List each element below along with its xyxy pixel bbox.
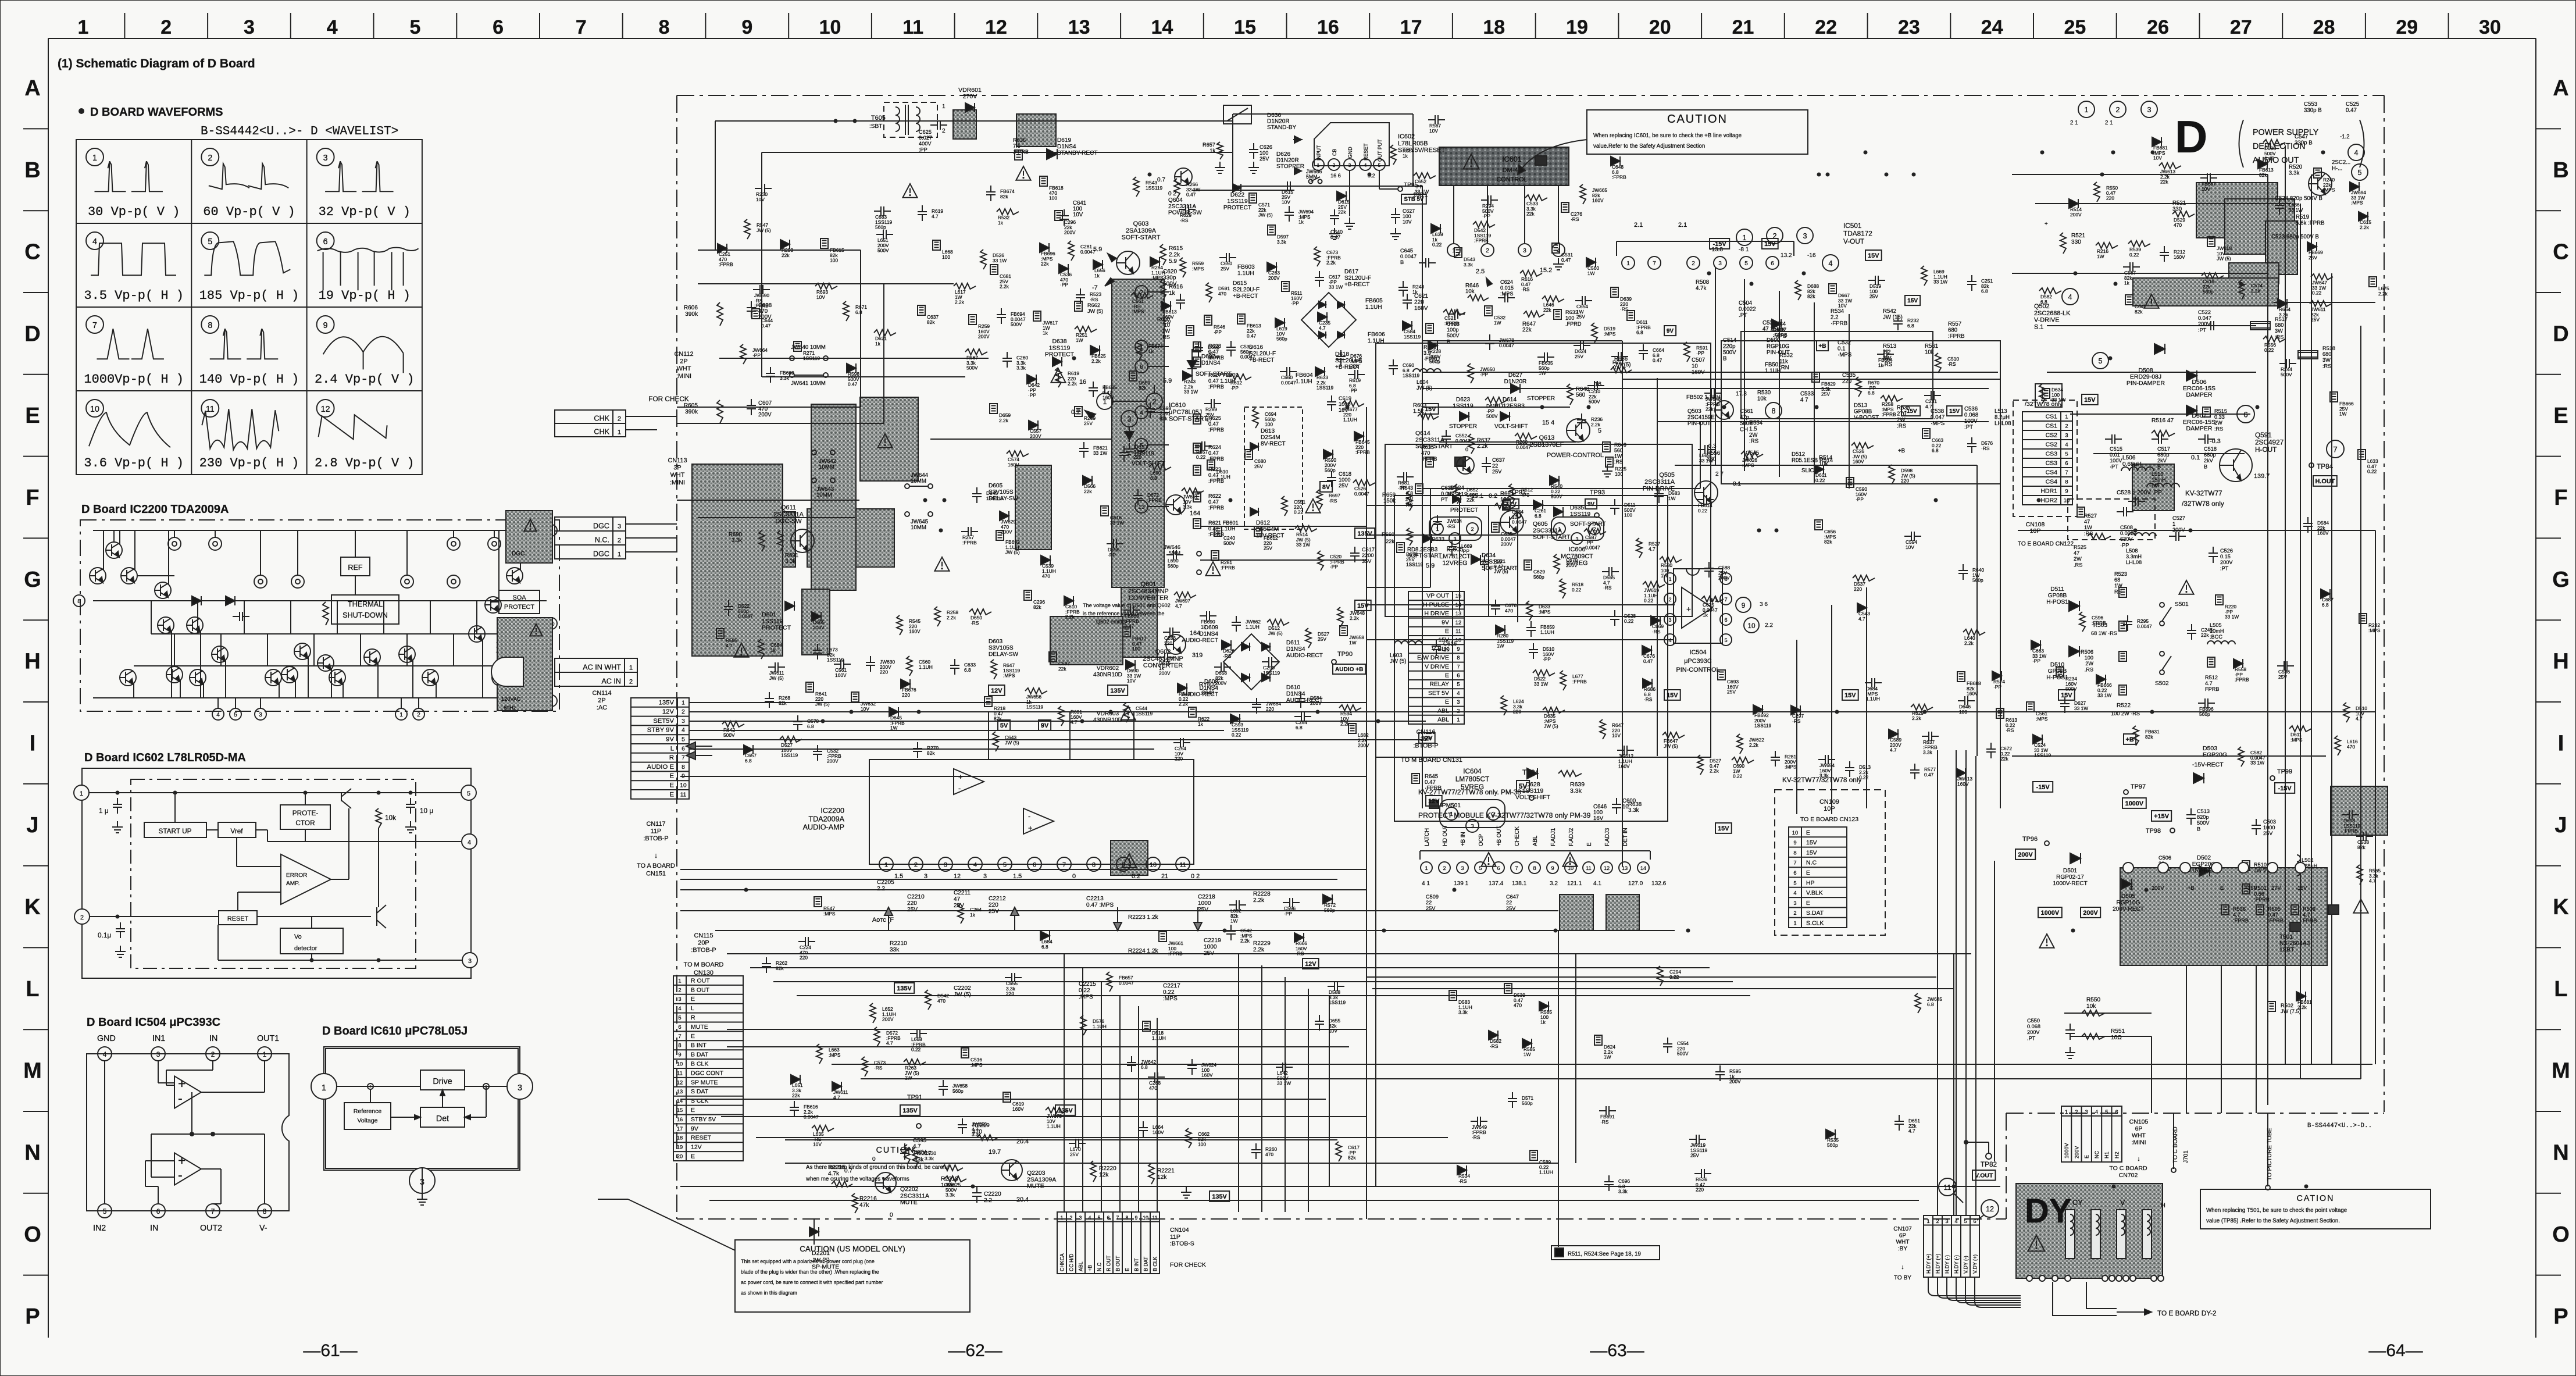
resistor/capacitor (filler): [1515, 433, 1537, 439]
wire: [1422, 388, 1989, 389]
svg-text:500V: 500V: [1677, 1051, 1689, 1057]
wire: [1233, 113, 1413, 115]
svg-text:STAND-BY: STAND-BY: [1267, 124, 1297, 131]
transformer T601 left patch: [811, 404, 856, 590]
C528: [2128, 501, 2135, 502]
resistor/capacitor (filler): [1179, 209, 1186, 210]
wire: [297, 530, 298, 575]
wire: [2285, 145, 2286, 1064]
svg-text:2: 2: [2065, 423, 2068, 429]
voltage callout 9V: [1039, 720, 1051, 730]
waveform ref 5: [2352, 164, 2368, 180]
wire: [690, 721, 1426, 722]
svg-text:10V: 10V: [1612, 733, 1621, 739]
warning symbol: [902, 184, 917, 198]
svg-text:DGC: DGC: [593, 550, 609, 558]
waveform ref 7 and TP84: [2327, 440, 2344, 458]
svg-text:6.8: 6.8: [2040, 299, 2047, 305]
svg-text:C626: C626: [1260, 144, 1272, 150]
capacitor C625: [930, 124, 937, 126]
svg-text:D613: D613: [1261, 428, 1275, 434]
svg-text:220: 220: [907, 900, 917, 907]
svg-text:33 1W: 33 1W: [1415, 189, 1429, 195]
svg-text:164: 164: [1190, 630, 1200, 637]
resistor/capacitor (filler): [1437, 515, 1438, 522]
svg-text:0.2: 0.2: [1489, 493, 1497, 500]
wire: [331, 669, 332, 698]
svg-text:0.47: 0.47: [1653, 358, 1662, 363]
svg-text:1k: 1k: [1703, 612, 1708, 618]
svg-text:160V: 160V: [2317, 530, 2329, 536]
svg-text:560p: 560p: [1522, 1100, 1533, 1106]
svg-text:5: 5: [2357, 169, 2361, 177]
svg-text:22k: 22k: [1041, 261, 1049, 267]
wire: [2311, 174, 2312, 1064]
svg-text:M: M: [2552, 1059, 2570, 1083]
transistor Q20 (IC2200 internal): [506, 568, 523, 584]
delay-sw transistor 1: [1166, 495, 1186, 515]
wire: [1779, 291, 1780, 477]
svg-text:PIN-DAMPER: PIN-DAMPER: [2127, 380, 2165, 387]
svg-text:C: C: [24, 240, 40, 265]
svg-text:2.2k: 2.2k: [1964, 640, 1974, 646]
svg-text:2.2k: 2.2k: [1912, 715, 1922, 721]
svg-text:M: M: [23, 1059, 42, 1083]
svg-text:200V: 200V: [2152, 885, 2164, 891]
svg-text:200V: 200V: [1159, 671, 1171, 676]
svg-text::FPRB: :FPRB: [2343, 828, 2358, 834]
JW646 5MM: [1197, 551, 1201, 556]
waveform cell 6: [317, 232, 334, 249]
svg-text:·PP: ·PP: [1480, 372, 1488, 377]
resistor/capacitor (filler): [1262, 661, 1269, 662]
svg-text:R505: R505: [2268, 906, 2281, 912]
V-BOOST box outline: [1741, 331, 1933, 419]
resistor/capacitor (filler): [1230, 925, 1232, 931]
svg-text:2: 2: [160, 16, 172, 38]
svg-text:INPUT: INPUT: [1316, 145, 1322, 161]
svg-text:4.7: 4.7: [2205, 680, 2213, 686]
pin 1: [311, 1074, 337, 1099]
voltage callout 15V: [1355, 600, 1371, 611]
wire: [1069, 712, 1071, 760]
C619 1000 16V: [1331, 395, 1332, 402]
svg-text:0.22: 0.22: [911, 1047, 921, 1053]
resistor/capacitor (filler): [965, 349, 987, 355]
svg-text:4.7: 4.7: [1890, 747, 1897, 753]
waveform cell 12: [317, 400, 334, 417]
svg-text:14: 14: [1151, 16, 1173, 38]
svg-text:1W: 1W: [1497, 643, 1504, 649]
wire: [690, 730, 1224, 731]
resistor/capacitor (filler): [1137, 489, 1139, 495]
Reference Voltage box: [344, 1103, 391, 1129]
svg-text:FOR CHECK: FOR CHECK: [1170, 1261, 1206, 1268]
svg-text:D603: D603: [989, 639, 1003, 645]
svg-text:VOLT-SHIFT: VOLT-SHIFT: [1494, 423, 1528, 430]
svg-text:1W: 1W: [1524, 1051, 1531, 1057]
svg-text:B OUT: B OUT: [1115, 1255, 1121, 1271]
C608 470 200V: [751, 301, 752, 308]
svg-text:7: 7: [2065, 469, 2068, 476]
resistor/capacitor (filler): [1219, 257, 1226, 258]
rectifier Q602 AC-RECT patch: [860, 397, 918, 481]
ground: [2070, 1047, 2071, 1053]
svg-text:2: 2: [1457, 707, 1460, 714]
pin 6: [545, 695, 557, 707]
svg-text:6: 6: [682, 746, 685, 752]
callout 135V bottom: [900, 1105, 920, 1115]
resistor/capacitor (filler): [1183, 371, 1192, 380]
resistor/capacitor (filler): [1957, 672, 1965, 682]
callout 9V b: [1664, 326, 1676, 336]
svg-text:16V: 16V: [1593, 815, 1604, 822]
resistor/capacitor (filler): [1561, 202, 1569, 212]
svg-text:7: 7: [576, 16, 587, 38]
TP98 +15V: [2152, 811, 2171, 821]
svg-text:V.OUT: V.OUT: [1975, 1172, 1993, 1179]
svg-text:as shown in this diagram: as shown in this diagram: [741, 1290, 797, 1296]
ground near CN104: [1186, 1186, 1187, 1192]
R690 3.3k: [759, 530, 765, 551]
transformer T603 patch: [807, 509, 894, 567]
resistor/capacitor (filler): [1651, 616, 1660, 625]
resistor/capacitor (filler): [1911, 704, 1933, 710]
resistor/capacitor (filler): [1342, 401, 1364, 407]
svg-text:C637: C637: [1492, 457, 1505, 463]
svg-text:8: 8: [678, 1042, 681, 1049]
svg-text:CY: CY: [2072, 1199, 2083, 1207]
svg-text:4.7: 4.7: [932, 213, 939, 219]
transistor Q2202 MUTE: [875, 1172, 896, 1193]
svg-text:H-...: H-...: [2332, 166, 2342, 172]
svg-text:C535: C535: [1842, 372, 1856, 379]
resistor/capacitor (filler): [2164, 246, 2165, 252]
svg-text:2.2k: 2.2k: [1000, 284, 1009, 290]
wire top bus: [93, 530, 547, 531]
resistor/capacitor (filler): [1289, 206, 1290, 212]
svg-text:ac power cord, be sure to conn: ac power cord, be sure to connect it wit…: [741, 1279, 883, 1285]
svg-text:2: 2: [629, 679, 633, 686]
S502 switch: [2160, 651, 2164, 656]
TP82 V.OUT: [1966, 1142, 1989, 1143]
connector CN116 15P: [1408, 591, 1453, 724]
svg-text:9: 9: [1135, 1215, 1138, 1221]
svg-text:JW (5): JW (5): [1258, 212, 1273, 218]
wire: [727, 1029, 1367, 1030]
svg-text:3.3k: 3.3k: [925, 1156, 934, 1161]
svg-text:220: 220: [1513, 709, 1521, 715]
wire: [721, 1116, 1367, 1117]
R615 2.2k: [1160, 244, 1166, 265]
wire: [680, 1099, 1326, 1100]
svg-text:C506: C506: [2158, 855, 2171, 861]
svg-text:+B IN: +B IN: [1460, 832, 1467, 846]
IC504 body: [87, 1054, 289, 1211]
wire: [1200, 559, 1367, 561]
svg-text:1SS119: 1SS119: [1146, 185, 1163, 191]
svg-text:8V-RECT: 8V-RECT: [1261, 441, 1286, 447]
wire: [1715, 268, 1716, 465]
voltage callout 135V: [1355, 528, 1375, 539]
D635 SOFT-START: [1554, 507, 1563, 516]
svg-text:2.2k: 2.2k: [1240, 938, 1250, 944]
resistor/capacitor (filler): [2258, 159, 2267, 169]
svg-text:D611: D611: [1286, 640, 1300, 646]
wire: [2360, 326, 2361, 1079]
svg-text:5.9: 5.9: [1163, 377, 1172, 384]
svg-text:RS: RS: [2114, 589, 2122, 594]
pin 2: [206, 1047, 220, 1061]
svg-text:3: 3: [924, 873, 927, 880]
wire: [2012, 755, 2326, 757]
resistor/capacitor (filler): [990, 265, 998, 275]
svg-text:0.0047: 0.0047: [1240, 354, 1255, 360]
svg-text:4.7: 4.7: [1319, 325, 1326, 331]
svg-text:EGP20G: EGP20G: [2203, 751, 2227, 758]
svg-text:SOFT-START: SOFT-START: [1533, 534, 1571, 541]
resistor/capacitor (filler): [1348, 374, 1355, 375]
resistor/capacitor (filler): [2239, 280, 2245, 300]
svg-text:3: 3: [1793, 900, 1796, 906]
wire: [1082, 968, 1083, 1212]
svg-text:S3V105S: S3V105S: [989, 645, 1014, 651]
waveform ref 8: [1765, 402, 1782, 419]
pin 11: [1176, 857, 1190, 871]
D622 PROTECT: [1233, 184, 1241, 192]
D628 VOLT-SHIFT: [1527, 768, 1537, 779]
svg-text:R2220: R2220: [1099, 1165, 1116, 1172]
svg-text:1W: 1W: [1349, 640, 1357, 646]
svg-text:2.4 Vp-p( V ): 2.4 Vp-p( V ): [315, 372, 415, 387]
svg-text:3 6: 3 6: [1760, 601, 1768, 608]
svg-text:390k: 390k: [685, 311, 698, 318]
wire: [225, 660, 226, 698]
svg-text:15V: 15V: [2061, 692, 2072, 699]
R2216 47k: [852, 1193, 858, 1213]
resistor/capacitor (filler): [1627, 311, 1635, 320]
svg-text:T605: T605: [871, 115, 886, 122]
svg-text:PIN-OUT: PIN-OUT: [1767, 350, 1790, 356]
wire: [267, 634, 268, 666]
svg-text:STBY 9V: STBY 9V: [647, 727, 675, 734]
svg-text:D: D: [2175, 111, 2207, 162]
svg-text:0.0047: 0.0047: [1281, 380, 1296, 386]
svg-text:1: 1: [682, 700, 685, 706]
svg-text:3W: 3W: [2322, 357, 2331, 363]
svg-text:82k: 82k: [927, 319, 935, 325]
svg-text::MINI: :MINI: [676, 373, 691, 380]
resistor/capacitor (filler): [2350, 182, 2359, 191]
C513 820p: [2190, 808, 2192, 815]
svg-text:25V: 25V: [1198, 907, 1208, 913]
svg-text:S.DAT: S.DAT: [1806, 910, 1824, 917]
D634 SOFT-START: [1471, 555, 1480, 564]
voltage callout 15V: [1664, 690, 1681, 700]
svg-text:DY: DY: [2025, 1192, 2072, 1230]
resistor/capacitor (filler): [1315, 367, 1325, 376]
voltage callout 15V: [2082, 394, 2098, 405]
svg-text:1.1UH: 1.1UH: [1237, 270, 1254, 277]
TP90 AUDIO +B: [1332, 660, 1336, 664]
resistor/capacitor (filler): [780, 240, 790, 249]
svg-text:Q602 emitter: Q602 emitter: [1096, 619, 1127, 625]
wire: [1575, 954, 1576, 1163]
svg-text:5: 5: [2105, 1109, 2108, 1115]
resistor/capacitor (filler): [1865, 682, 1872, 683]
resistor/capacitor (filler): [1501, 696, 1507, 715]
svg-text:132.6: 132.6: [1651, 881, 1667, 887]
svg-text:PROTECT: PROTECT: [1223, 205, 1251, 211]
resistor/capacitor (filler): [862, 1057, 868, 1076]
svg-text:H.DY (-): H.DY (-): [1954, 1255, 1960, 1274]
svg-text:2.8 Vp-p( V ): 2.8 Vp-p( V ): [315, 456, 415, 470]
svg-text:L604: L604: [1417, 379, 1428, 385]
resistor/capacitor (filler): [2307, 517, 2309, 523]
resistor/capacitor (filler): [1522, 1039, 1532, 1048]
resistor/capacitor (filler): [744, 745, 753, 754]
wire: [761, 152, 762, 377]
R637 2.2k: [1468, 434, 1474, 454]
resistor/capacitor (filler): [876, 234, 883, 235]
resistor/capacitor (filler): [1512, 1092, 1513, 1099]
svg-text::RS: :RS: [1749, 439, 1759, 445]
pin 3: [255, 708, 266, 720]
svg-text::BTOB-P: :BTOB-P: [643, 835, 668, 842]
wire: [406, 530, 408, 575]
Q604 POWER-SW: [1175, 168, 1192, 186]
wire: [360, 634, 361, 666]
svg-text:SOFT-START: SOFT-START: [1122, 234, 1161, 241]
resistor/capacitor (filler): [1214, 526, 1222, 536]
svg-text:9: 9: [323, 321, 328, 330]
svg-text:3.2: 3.2: [1550, 881, 1558, 887]
IC501 pin 1: [1622, 256, 1635, 269]
svg-text:2.2k: 2.2k: [1253, 947, 1265, 953]
svg-text:200V: 200V: [1718, 575, 1730, 581]
DY coil 3: [2117, 1210, 2126, 1259]
pin 5: [230, 708, 241, 720]
resistor/capacitor (filler): [1481, 199, 1488, 201]
svg-text:C617: C617: [1362, 547, 1375, 552]
svg-text:4 1: 4 1: [1422, 881, 1430, 887]
svg-text:C2202: C2202: [954, 985, 971, 992]
svg-text:8: 8: [1793, 849, 1796, 855]
svg-text:1W: 1W: [1661, 573, 1668, 579]
wire: [355, 530, 356, 557]
resistor R int2: [497, 640, 503, 660]
waveform ref 12: [1981, 1200, 1999, 1217]
svg-text:D BOARD WAVEFORMS: D BOARD WAVEFORMS: [90, 106, 223, 119]
svg-text:6: 6: [2243, 411, 2247, 419]
resistor/capacitor (filler): [1136, 340, 1142, 360]
svg-text:33 1W: 33 1W: [2289, 207, 2303, 213]
svg-text:·PP: ·PP: [1482, 213, 1490, 219]
svg-text:138.1: 138.1: [1512, 881, 1527, 887]
resistor/capacitor (filler): [1101, 506, 1108, 516]
svg-text:160V: 160V: [1153, 1129, 1164, 1135]
C618 1000 25V: [1331, 471, 1332, 477]
svg-text:6: 6: [1033, 862, 1036, 869]
svg-text:+: +: [178, 1153, 185, 1168]
wire: [715, 930, 1675, 931]
svg-text:R OUT: R OUT: [691, 977, 710, 984]
jumper JW644 10MM: [905, 484, 909, 489]
resistor/capacitor (filler): [943, 1080, 944, 1086]
resistor/capacitor (filler): [897, 615, 902, 635]
voltage callout 135V: [894, 983, 914, 993]
svg-text:·PP: ·PP: [1284, 911, 1292, 917]
waveform ref 4: [2348, 144, 2364, 161]
svg-text:10V: 10V: [1127, 678, 1136, 684]
wire: [1367, 604, 1675, 605]
svg-text:15V: 15V: [1868, 252, 1879, 259]
wire loop box 1: [1376, 343, 1711, 757]
svg-text::RS: :RS: [2084, 530, 2093, 536]
wire: [680, 1186, 2000, 1187]
svg-text:1 μ: 1 μ: [99, 807, 109, 815]
svg-text:E: E: [2553, 404, 2568, 428]
transistor Q14 (IC2200 internal): [329, 669, 345, 686]
svg-text:47: 47: [954, 896, 961, 903]
svg-text:139.7: 139.7: [2254, 473, 2270, 480]
wire w5: [305, 793, 306, 805]
svg-text:0.22: 0.22: [1232, 732, 1241, 738]
svg-text:680p: 680p: [2157, 452, 2169, 458]
svg-text:10k: 10k: [1465, 288, 1475, 295]
resistor/capacitor (filler): [794, 341, 801, 351]
svg-text:0.22: 0.22: [1432, 242, 1442, 248]
resistor/capacitor (filler): [1971, 437, 1972, 444]
resistor 10k: [376, 808, 381, 828]
svg-text::FPRB: :FPRB: [1168, 951, 1183, 957]
svg-text:21: 21: [1161, 873, 1168, 880]
svg-text:1SS119: 1SS119: [1329, 1000, 1346, 1006]
wire: [436, 683, 437, 698]
transistor Q (IC602 top): [326, 792, 355, 793]
resistor/capacitor (filler): [1485, 397, 1507, 403]
svg-text::FPRB: :FPRB: [962, 540, 977, 546]
svg-text:200V: 200V: [827, 758, 839, 764]
wire w7: [331, 879, 349, 880]
svg-text:270V: 270V: [963, 93, 977, 100]
resistor/capacitor (filler): [1574, 345, 1580, 346]
svg-text:·PP: ·PP: [1696, 350, 1704, 356]
svg-text:25V: 25V: [1084, 420, 1093, 426]
svg-text::FPRB: :FPRB: [719, 262, 733, 268]
svg-text:3: 3: [156, 1050, 160, 1058]
svg-text:SOFT-START: SOFT-START: [1415, 443, 1453, 450]
capacitor C520 patch: [2265, 221, 2297, 275]
svg-text:1W: 1W: [1162, 328, 1170, 334]
resistor/capacitor (filler): [2200, 177, 2207, 179]
voltage callout 8V: [1320, 482, 1332, 492]
resistor/capacitor (filler): [1316, 490, 1322, 509]
resistor/capacitor (filler): [990, 404, 997, 413]
transistor Q16 (IC2200 internal): [399, 646, 415, 662]
resistor/capacitor (filler): [1093, 260, 1103, 269]
svg-text:25V: 25V: [907, 907, 918, 913]
svg-text:7: 7: [211, 1207, 215, 1215]
svg-text:Q2203: Q2203: [1027, 1170, 1046, 1177]
svg-text:·PP: ·PP: [1993, 684, 2001, 690]
svg-text::RS: :RS: [1897, 423, 1907, 430]
svg-text:25V: 25V: [1260, 156, 1269, 162]
svg-text:3: 3: [244, 16, 255, 38]
svg-text:D1NS4: D1NS4: [1286, 646, 1305, 653]
IC504 PIN-CONTROL block: [1674, 569, 1722, 643]
IC602 outer box: [82, 768, 471, 978]
